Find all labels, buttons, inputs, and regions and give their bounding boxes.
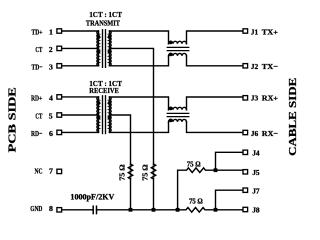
svg-text:J7: J7: [252, 186, 259, 195]
svg-text:3: 3: [49, 62, 53, 71]
svg-text:75 Ω: 75 Ω: [189, 198, 203, 206]
svg-text:RX−: RX−: [262, 129, 279, 138]
svg-text:GND: GND: [30, 204, 42, 213]
svg-text:TX−: TX−: [262, 62, 279, 71]
svg-text:J5: J5: [252, 168, 259, 177]
svg-text:J1: J1: [251, 27, 258, 36]
svg-text:J6: J6: [251, 129, 258, 138]
svg-text:TD+: TD+: [32, 27, 43, 36]
svg-text:1: 1: [49, 27, 53, 36]
svg-text:CABLE SIDE: CABLE SIDE: [287, 78, 299, 156]
svg-text:75 Ω: 75 Ω: [187, 160, 201, 168]
svg-text:RD+: RD+: [31, 94, 43, 103]
svg-text:8: 8: [49, 204, 53, 213]
svg-text:PCB SIDE: PCB SIDE: [6, 87, 18, 152]
svg-text:RD−: RD−: [31, 129, 43, 138]
svg-text:TD−: TD−: [32, 62, 43, 71]
svg-text:TX+: TX+: [262, 27, 279, 36]
svg-text:CT: CT: [35, 112, 43, 121]
svg-text:1000pF/2KV: 1000pF/2KV: [70, 193, 114, 202]
svg-text:TRANSMIT: TRANSMIT: [86, 18, 120, 27]
svg-text:5: 5: [49, 112, 53, 121]
svg-text:J4: J4: [252, 149, 259, 158]
svg-text:6: 6: [49, 129, 53, 138]
svg-text:2: 2: [49, 45, 53, 54]
svg-text:RECEIVE: RECEIVE: [89, 86, 119, 95]
svg-text:4: 4: [49, 94, 53, 103]
svg-text:75 Ω: 75 Ω: [118, 164, 126, 181]
svg-text:RX+: RX+: [262, 93, 279, 102]
svg-text:NC: NC: [35, 167, 43, 176]
svg-text:CT: CT: [35, 45, 43, 54]
svg-text:75 Ω: 75 Ω: [141, 164, 149, 181]
svg-text:J3: J3: [251, 93, 258, 102]
svg-text:7: 7: [49, 167, 53, 176]
svg-text:J2: J2: [251, 62, 258, 71]
svg-text:J8: J8: [252, 206, 259, 215]
